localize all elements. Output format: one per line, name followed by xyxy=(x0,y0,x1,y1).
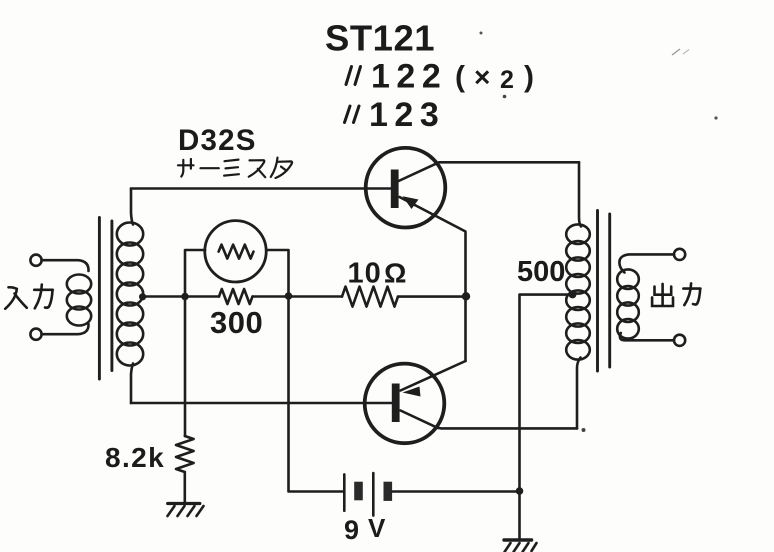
node B xyxy=(285,292,293,300)
wire top-left horizontal (input secondary top to Q1 base) xyxy=(131,187,391,190)
node center tap T2 xyxy=(569,290,577,298)
svg-text:500: 500 xyxy=(517,256,565,288)
transistor Q2 circle xyxy=(365,364,445,444)
input transformer T1 secondary winding xyxy=(117,223,143,366)
ground G2 xyxy=(504,540,537,552)
output terminal bottom xyxy=(674,335,685,346)
wire output primary top stub xyxy=(579,162,581,226)
output transformer T2 secondary winding xyxy=(617,269,639,338)
transistor Q1 circle xyxy=(366,148,446,228)
transistor Q1 base bar xyxy=(391,170,399,209)
input terminal bottom xyxy=(30,329,41,340)
resistor R1 300 xyxy=(219,289,253,304)
wire input secondary bottom stub xyxy=(131,364,133,404)
thermistor TH1 branch left stub xyxy=(185,250,205,297)
svg-text:Ω: Ω xyxy=(384,258,406,289)
transistor Q2 base bar xyxy=(392,384,400,423)
svg-text:): ) xyxy=(524,61,534,94)
wire T2 center tap to node D xyxy=(520,295,573,538)
transistor Q2 emitter xyxy=(401,361,466,391)
svg-text:122: 122 xyxy=(371,58,447,96)
wire node A down to 8.2k xyxy=(184,297,187,437)
transistor Q1 collector xyxy=(399,162,579,181)
transistor Q1 emitter xyxy=(400,197,466,361)
wire input top terminal xyxy=(42,260,89,271)
label input (kanji) xyxy=(5,285,53,309)
thermistor TH1 branch right stub xyxy=(266,250,288,293)
input transformer T1 primary winding xyxy=(67,275,91,326)
input transformer T1 core xyxy=(98,218,101,380)
output transformer T2 primary winding xyxy=(566,224,590,359)
wire output secondary top xyxy=(619,254,674,272)
stray dot xyxy=(582,428,586,432)
wire battery to ground node xyxy=(393,490,520,493)
wire 300 to node B xyxy=(253,295,343,298)
wire 8.2k to ground xyxy=(184,472,187,503)
wire 10 ohm to node C xyxy=(398,295,466,298)
transistor Q1 emitter arrow xyxy=(403,196,419,209)
node center tap T1 xyxy=(139,293,146,300)
label output (kanji) xyxy=(652,283,700,306)
wire center-tap main line xyxy=(143,295,219,298)
label thermistor (katakana) xyxy=(178,158,292,178)
svg-text:V: V xyxy=(368,513,386,543)
svg-text:10: 10 xyxy=(348,258,382,290)
stray mark xyxy=(480,32,483,35)
output transformer T2 core xyxy=(596,211,599,372)
wire input secondary top stub xyxy=(131,189,133,225)
svg-text:D32S: D32S xyxy=(178,124,257,157)
ground G1 xyxy=(168,504,204,517)
ditto mark line2 xyxy=(346,67,361,85)
resistor R2 10 ohm xyxy=(342,287,398,307)
node D (battery / center-tap / ground) xyxy=(516,487,524,495)
node A (thermistor left / 8.2k) xyxy=(181,293,189,301)
input terminal top xyxy=(30,255,41,266)
wire output secondary bottom xyxy=(620,333,674,340)
svg-text:123: 123 xyxy=(369,96,445,134)
thermistor TH1 element xyxy=(219,245,254,259)
thermistor TH1 circle xyxy=(205,221,266,282)
resistor R3 8.2k xyxy=(176,436,194,472)
output terminal top xyxy=(674,249,685,260)
svg-text:×: × xyxy=(474,62,490,93)
transistor Q2 collector xyxy=(401,411,578,429)
wire node B down to battery xyxy=(289,297,344,492)
svg-text:2: 2 xyxy=(500,66,514,94)
transistor Q2 emitter arrow xyxy=(403,387,421,397)
svg-text:9: 9 xyxy=(344,515,359,545)
node C (emitters junction) xyxy=(462,292,470,300)
wire bottom-left horizontal (input secondary bottom to Q2 base) xyxy=(131,402,392,405)
svg-text:ST121: ST121 xyxy=(325,18,435,59)
svg-text:8.2k: 8.2k xyxy=(105,442,165,473)
ditto mark line3 xyxy=(345,106,360,123)
wire input bottom terminal xyxy=(42,324,89,334)
svg-text:(: ( xyxy=(455,61,465,94)
battery BT1 9V xyxy=(344,473,392,516)
wire output primary bottom stub xyxy=(577,358,581,429)
svg-text:300: 300 xyxy=(210,305,263,340)
